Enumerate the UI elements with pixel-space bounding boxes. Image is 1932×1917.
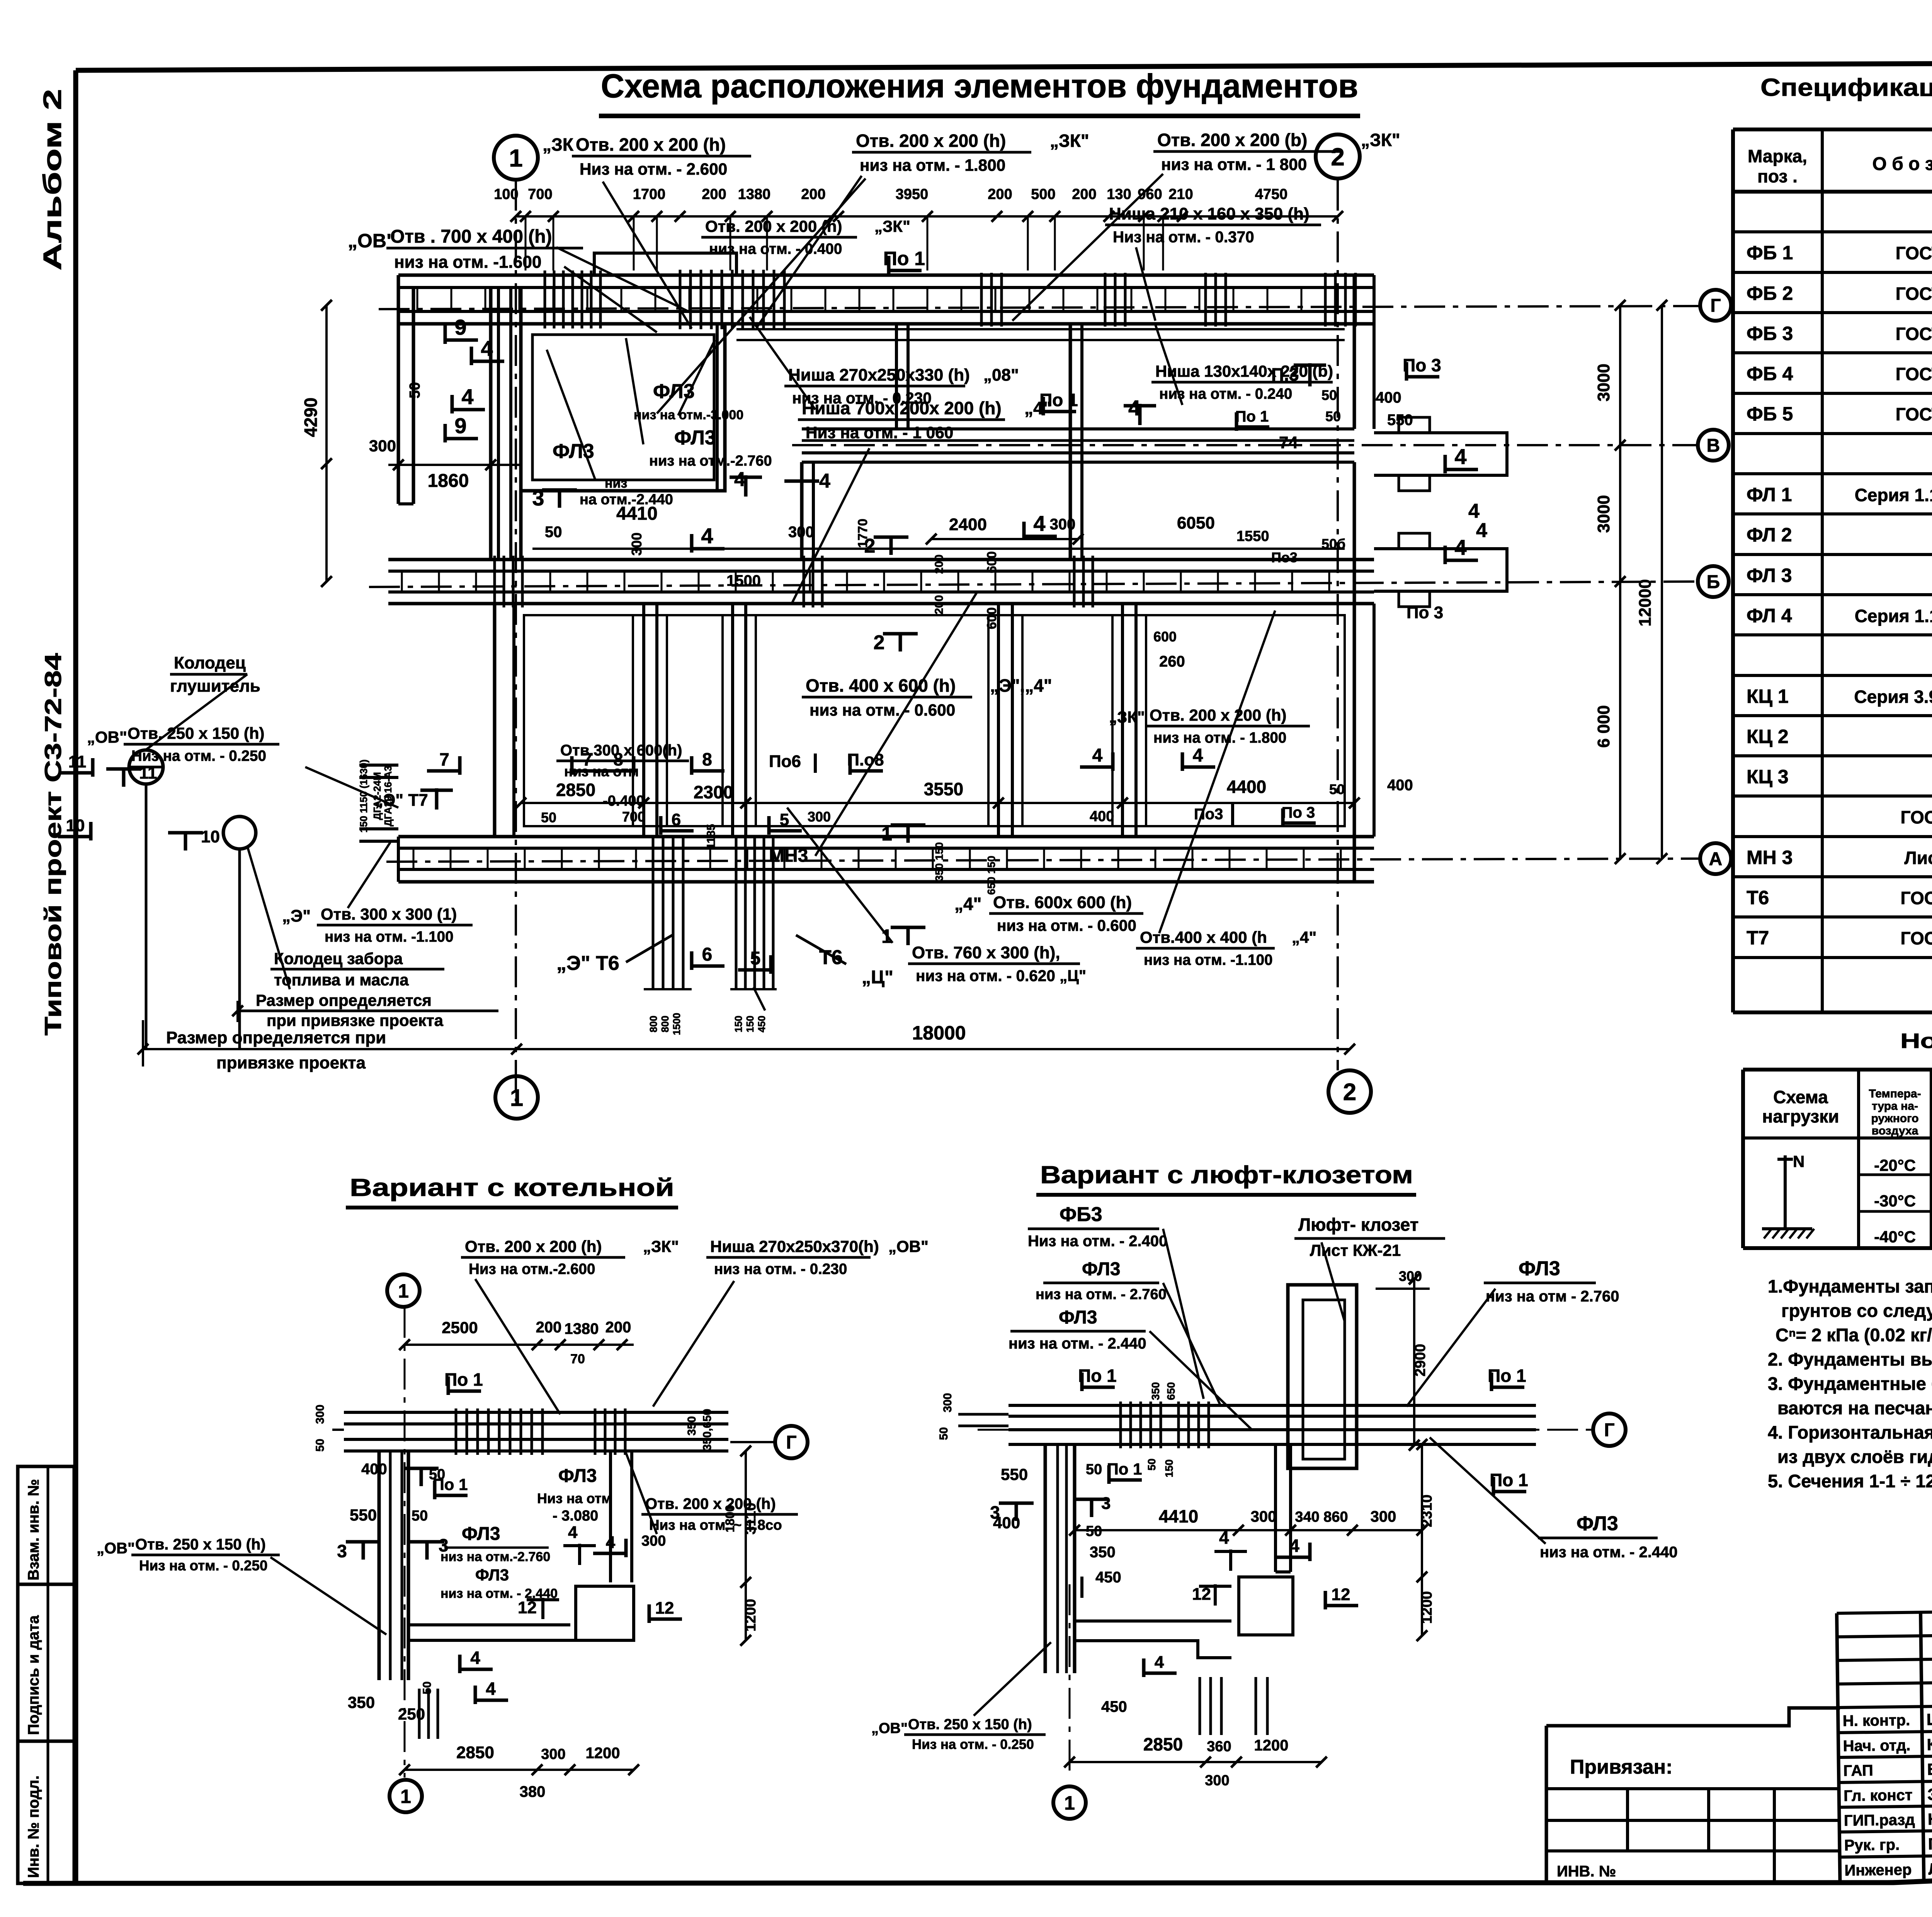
- svg-text:300: 300: [1251, 1508, 1277, 1525]
- svg-text:низ на отм. -1.600: низ на отм. -1.600: [394, 253, 541, 272]
- variant1 band left stub: [332, 1429, 344, 1431]
- svg-text:ГОСТ 13579-78: ГОСТ 13579-78: [1896, 243, 1932, 263]
- svg-text:ФЛ3: ФЛ3: [553, 440, 594, 463]
- svg-text:10: 10: [66, 816, 85, 835]
- svg-text:Отв. 400 х 600 (h): Отв. 400 х 600 (h): [806, 675, 956, 696]
- svg-text:ГОСТ 3634-79: ГОСТ 3634-79: [1900, 807, 1932, 827]
- svg-text:низ на отм. - 0.600: низ на отм. - 0.600: [997, 917, 1136, 934]
- svg-text:350: 350: [685, 1416, 698, 1436]
- svg-text:5: 5: [780, 810, 789, 829]
- svg-text:350: 350: [348, 1693, 375, 1711]
- svg-text:18000: 18000: [912, 1022, 966, 1044]
- svg-text:150: 150: [733, 1015, 744, 1032]
- svg-text:Типовой проект С3-72-84: Типовой проект С3-72-84: [40, 653, 66, 1036]
- svg-text:2: 2: [1343, 1079, 1356, 1106]
- svg-text:200: 200: [801, 186, 825, 202]
- svg-text:300: 300: [788, 524, 814, 541]
- svg-text:400: 400: [361, 1461, 387, 1478]
- svg-text:9: 9: [454, 413, 466, 438]
- svg-text:привязке проекта: привязке проекта: [216, 1053, 366, 1072]
- svg-text:150 1150 (1630): 150 1150 (1630): [358, 759, 369, 832]
- svg-text:По 1: По 1: [883, 248, 925, 269]
- axis 1 dash-dot vertical: [515, 180, 517, 1101]
- svg-text:Глебова: Глебова: [1928, 1834, 1932, 1853]
- wall band axis В partial: [802, 427, 1354, 430]
- svg-text:Низ на отм. - 0.250: Низ на отм. - 0.250: [912, 1737, 1034, 1752]
- hatch ticks on Б band: [493, 556, 496, 607]
- variant1 right dim line: [745, 1451, 747, 1640]
- svg-text:ФЛ 2: ФЛ 2: [1747, 524, 1792, 546]
- svg-text:„Цʺ: „Цʺ: [862, 967, 893, 988]
- porch left wall: [397, 275, 400, 504]
- svg-text:ФЛ3: ФЛ3: [1519, 1257, 1560, 1280]
- svg-text:Отв. 250 х 150 (h): Отв. 250 х 150 (h): [135, 1536, 266, 1553]
- svg-text:ГОСТ 13579-78: ГОСТ 13579-78: [1896, 324, 1932, 344]
- svg-text:топлива и масла: топлива и масла: [274, 971, 409, 989]
- svg-text:Колодец забора: Колодец забора: [274, 949, 403, 968]
- svg-text:ФБ 2: ФБ 2: [1747, 282, 1793, 304]
- svg-text:Кочетков: Кочетков: [1927, 1735, 1932, 1754]
- svg-text:ИНВ. №: ИНВ. №: [1557, 1863, 1616, 1880]
- svg-text:1: 1: [510, 1085, 523, 1111]
- svg-text:По 3: По 3: [1403, 355, 1441, 375]
- svg-text:6 000: 6 000: [1594, 705, 1613, 748]
- svg-text:1.Фундаменты запроектированы: 1.Фундаменты запроектированы для сухих ,…: [1768, 1276, 1932, 1296]
- svg-text:„4ʺ: „4ʺ: [1024, 398, 1051, 418]
- variant2 po1 marks: [1080, 1373, 1084, 1391]
- svg-text:Вариант с люфт-клозетом: Вариант с люфт-клозетом: [1040, 1161, 1413, 1189]
- svg-text:По 1: По 1: [1488, 1366, 1526, 1386]
- svg-text:300: 300: [369, 437, 396, 455]
- svg-text:Виноградов: Виноградов: [1927, 1759, 1932, 1778]
- svg-text:ФБ 4: ФБ 4: [1747, 363, 1793, 384]
- svg-text:КЦ 2: КЦ 2: [1747, 726, 1789, 747]
- svg-text:2850: 2850: [556, 780, 595, 800]
- svg-text:Низ на отм.-2.600: Низ на отм.-2.600: [469, 1261, 595, 1277]
- svg-text:Взам. инв. №: Взам. инв. №: [25, 1479, 42, 1580]
- axis Б dash-dot: [369, 582, 1698, 587]
- svg-text:200: 200: [536, 1319, 562, 1336]
- svg-text:По6: По6: [769, 752, 801, 771]
- pipe stub left wall y1990: [359, 764, 398, 767]
- svg-text:Г: Г: [1604, 1420, 1614, 1441]
- svg-text:350: 350: [1150, 1382, 1162, 1400]
- svg-text:ФЛ 1: ФЛ 1: [1747, 484, 1792, 505]
- svg-text:50б: 50б: [1321, 536, 1345, 552]
- svg-text:Ниша 210 х 160 х 350 (h): Ниша 210 х 160 х 350 (h): [1109, 204, 1310, 223]
- svg-text:3: 3: [1101, 1494, 1111, 1513]
- svg-text:10: 10: [201, 827, 220, 846]
- variant1 axis circle 1 bottom: [389, 1780, 422, 1812]
- load table schema sketch: [1784, 1155, 1787, 1229]
- svg-text:воздуха: воздуха: [1872, 1124, 1918, 1137]
- svg-text:300: 300: [941, 1393, 954, 1412]
- variant1 po1 mark: [447, 1376, 450, 1395]
- svg-text:150: 150: [1163, 1459, 1175, 1478]
- svg-text:Нач. отд.: Нач. отд.: [1843, 1737, 1910, 1755]
- svg-text:По3: По3: [1271, 549, 1298, 565]
- svg-text:74: 74: [1279, 433, 1298, 452]
- svg-text:1185: 1185: [705, 824, 718, 849]
- dim 2400 mid: [874, 536, 908, 539]
- svg-text:400: 400: [1376, 389, 1401, 406]
- svg-text:4: 4: [819, 470, 830, 492]
- svg-text:ружного: ружного: [1871, 1112, 1918, 1125]
- svg-text:По 1: По 1: [1107, 1460, 1142, 1478]
- svg-text:Серия 1.112-5, выпуск 4: Серия 1.112-5, выпуск 4: [1855, 606, 1932, 626]
- variant2 axis circle 1: [1069, 1584, 1071, 1778]
- svg-text:„Эʺ Т6: „Эʺ Т6: [556, 952, 619, 975]
- svg-text:450: 450: [756, 1015, 767, 1032]
- svg-text:низ на отм.-2.760: низ на отм.-2.760: [649, 453, 772, 469]
- footing inner lines above А band: [524, 825, 1345, 827]
- svg-text:низ на отм.-3.000: низ на отм.-3.000: [634, 408, 743, 422]
- svg-text:низ на отм. - 0.400: низ на отм. - 0.400: [709, 241, 842, 257]
- svg-text:2. Фундаменты выполнены из: 2. Фундаменты выполнены из сборных блоко…: [1768, 1349, 1932, 1369]
- svg-text:По 1: По 1: [1235, 408, 1269, 425]
- svg-text:3: 3: [337, 1541, 347, 1561]
- svg-text:КЦ 3: КЦ 3: [1747, 766, 1789, 788]
- svg-text:130: 130: [1107, 186, 1131, 202]
- svg-text:4400: 4400: [1227, 777, 1266, 797]
- variant1 top dim line: [405, 1344, 634, 1346]
- svg-text:Нормативные нагрузки на: Нормативные нагрузки на обрезе фундамент…: [1900, 1029, 1932, 1053]
- svg-text:400: 400: [1090, 808, 1114, 825]
- svg-text:ФЛ3: ФЛ3: [462, 1524, 500, 1544]
- svg-text:Низ на отм. - 2.600: Низ на отм. - 2.600: [580, 160, 727, 178]
- svg-text:6050: 6050: [1177, 514, 1215, 532]
- svg-text:низ на отм. - 0.620 „Цʺ: низ на отм. - 0.620 „Цʺ: [916, 967, 1086, 985]
- svg-text:Н. контр.: Н. контр.: [1843, 1712, 1910, 1730]
- section marks bottom rooms row: [458, 756, 462, 775]
- tick row on А band: [413, 848, 415, 869]
- svg-text:-30°C: -30°C: [1874, 1192, 1916, 1210]
- svg-text:По 1: По 1: [433, 1475, 468, 1493]
- svg-text:1: 1: [881, 823, 892, 845]
- hatch ticks on top band: [544, 270, 546, 328]
- svg-text:ФЛ3: ФЛ3: [558, 1466, 597, 1486]
- svg-text:4: 4: [470, 1648, 480, 1668]
- tick row on Б band: [401, 571, 403, 592]
- bottom dimension line 18000: [143, 1048, 1350, 1050]
- svg-text:ФЛ 3: ФЛ 3: [1747, 565, 1792, 586]
- svg-text:Низ на отм. - 1 060: Низ на отм. - 1 060: [806, 424, 953, 442]
- svg-text:350: 350: [1090, 1544, 1116, 1561]
- svg-text:Т7: Т7: [1747, 927, 1769, 949]
- variant2 niche wall vertical: [1274, 1444, 1277, 1572]
- svg-text:Схема расположения элементов: Схема расположения элементов фундаментов: [601, 68, 1358, 105]
- svg-text:2900: 2900: [1412, 1344, 1429, 1377]
- svg-text:1200: 1200: [1254, 1737, 1289, 1754]
- svg-text:1: 1: [509, 144, 523, 172]
- svg-text:„ЗКʺ: „ЗКʺ: [874, 217, 910, 235]
- svg-text:Низ на отм. - 0.250: Низ на отм. - 0.250: [139, 1558, 267, 1573]
- svg-text:низ на отм. -1.100: низ на отм. -1.100: [325, 929, 454, 945]
- svg-text:380: 380: [520, 1783, 546, 1800]
- svg-text:4. Горизонтальная гидроизоля: 4. Горизонтальная гидроизоляция стен вып…: [1768, 1422, 1932, 1442]
- svg-text:Г: Г: [1710, 296, 1721, 316]
- svg-text:ФЛ3: ФЛ3: [1059, 1307, 1097, 1328]
- svg-text:200: 200: [933, 595, 946, 614]
- svg-text:ГОСТ 1839-80: ГОСТ 1839-80: [1900, 888, 1932, 908]
- svg-text:300: 300: [1050, 516, 1076, 533]
- svg-text:ФЛ3: ФЛ3: [1577, 1512, 1618, 1535]
- svg-text:1550: 1550: [1236, 528, 1269, 544]
- svg-text:4: 4: [701, 524, 713, 548]
- left margin stamp boxes: [18, 1466, 74, 1584]
- svg-text:МН3: МН3: [769, 845, 808, 866]
- svg-text:150: 150: [744, 1015, 756, 1032]
- svg-text:Отв. 250 х 150 (h): Отв. 250 х 150 (h): [908, 1716, 1032, 1733]
- variant2 right dim line: [1421, 1444, 1423, 1636]
- axis 2 dash-dot vertical: [1337, 180, 1339, 1070]
- variant2 niche dims: [1376, 1288, 1430, 1290]
- svg-text:-20°C: -20°C: [1874, 1156, 1916, 1174]
- svg-text:ФБ 1: ФБ 1: [1747, 242, 1793, 264]
- variant1 marks 4 12: [578, 1544, 581, 1565]
- svg-text:N: N: [1793, 1152, 1804, 1170]
- svg-text:1: 1: [1064, 1792, 1075, 1814]
- svg-text:поз .: поз .: [1757, 166, 1798, 186]
- svg-text:350,650: 350,650: [701, 1409, 714, 1451]
- svg-text:ФЛ 4: ФЛ 4: [1747, 605, 1792, 626]
- svg-text:360: 360: [1207, 1738, 1231, 1755]
- axis circle 2 bottom: [1328, 1070, 1371, 1113]
- svg-text:50: 50: [412, 1508, 428, 1524]
- svg-text:„ОВʺ: „ОВʺ: [97, 1540, 135, 1557]
- svg-text:1380: 1380: [738, 186, 771, 202]
- svg-text:800: 800: [648, 1015, 659, 1032]
- axis circle 1 top: [494, 136, 538, 180]
- svg-text:300: 300: [541, 1746, 565, 1762]
- svg-text:„ЗК: „ЗК: [543, 134, 574, 155]
- svg-text:Инв. № подл.: Инв. № подл.: [25, 1776, 42, 1878]
- svg-text:Альбом 2: Альбом 2: [38, 89, 66, 270]
- svg-text:2850: 2850: [1143, 1734, 1183, 1754]
- svg-text:Серия 1.112-5, выпуск 2: Серия 1.112-5, выпуск 2: [1855, 485, 1932, 505]
- outer drawing frame: [76, 61, 1932, 70]
- svg-text:Цыганова: Цыганова: [1927, 1709, 1932, 1729]
- svg-text:700: 700: [622, 809, 645, 825]
- svg-text:В: В: [1707, 435, 1720, 456]
- svg-text:300: 300: [629, 532, 645, 556]
- svg-text:МН 3: МН 3: [1747, 847, 1793, 868]
- svg-text:„08ʺ: „08ʺ: [983, 366, 1019, 384]
- svg-text:Привязан:: Привязан:: [1570, 1756, 1673, 1778]
- svg-text:ФЛ3: ФЛ3: [475, 1566, 509, 1584]
- svg-text:Ниша 270х250х370(h): Ниша 270х250х370(h): [710, 1237, 879, 1255]
- svg-text:низ на отм. -1.100: низ на отм. -1.100: [1144, 952, 1273, 968]
- svg-text:7: 7: [439, 749, 449, 769]
- svg-text:низ на отм. - 0.600: низ на отм. - 0.600: [810, 701, 955, 719]
- svg-text:450: 450: [1101, 1698, 1127, 1715]
- svg-text:при привязке проекта: при привязке проекта: [267, 1011, 444, 1029]
- svg-text:Темпера-: Темпера-: [1869, 1087, 1921, 1100]
- axis circle Г: [1700, 290, 1731, 321]
- variant2 left wall: [1044, 1444, 1047, 1673]
- variant1 axis circle Г: [775, 1426, 808, 1458]
- axis1 wall lower: [493, 604, 497, 837]
- svg-text:КЦ 1: КЦ 1: [1747, 685, 1789, 707]
- svg-text:По 3: По 3: [1282, 804, 1315, 821]
- svg-text:4: 4: [1454, 535, 1466, 560]
- svg-text:3550: 3550: [924, 779, 963, 799]
- svg-text:5. Сечения 1-1 ÷ 12-12 смот: 5. Сечения 1-1 ÷ 12-12 смотреть на листе…: [1768, 1471, 1932, 1491]
- svg-text:1: 1: [400, 1786, 411, 1807]
- svg-text:О б о з н а ч е н и е: О б о з н а ч е н и е: [1872, 154, 1932, 174]
- svg-text:210: 210: [1168, 186, 1193, 202]
- svg-text:550: 550: [350, 1506, 377, 1524]
- svg-text:4: 4: [1193, 745, 1203, 766]
- svg-text:4: 4: [481, 336, 493, 361]
- svg-text:Отв. 760 х 300 (h),: Отв. 760 х 300 (h),: [912, 943, 1060, 962]
- svg-text:2850: 2850: [456, 1743, 494, 1762]
- svg-text:200: 200: [605, 1319, 631, 1336]
- svg-text:Отв. 600х 600 (h): Отв. 600х 600 (h): [993, 893, 1132, 912]
- svg-text:200: 200: [1072, 186, 1096, 202]
- T6 pipe hatch left group: [652, 837, 655, 989]
- svg-text:50: 50: [314, 1439, 327, 1451]
- svg-text:Т6: Т6: [1747, 887, 1769, 908]
- svg-text:3: 3: [532, 486, 544, 510]
- svg-text:По3: По3: [1194, 806, 1223, 823]
- variant2 axis Г: [978, 1429, 1592, 1431]
- svg-text:ФБ3: ФБ3: [1060, 1203, 1102, 1226]
- svg-text:250: 250: [398, 1705, 425, 1723]
- axis А dash-dot: [386, 859, 1699, 862]
- svg-text:1200: 1200: [743, 1599, 759, 1632]
- svg-text:низ на отм. - 2.440: низ на отм. - 2.440: [1009, 1335, 1146, 1352]
- variant1 axis circle 1 top: [387, 1274, 420, 1307]
- svg-text:4: 4: [568, 1523, 578, 1542]
- svg-text:Низ на отм: Низ на отм: [537, 1490, 612, 1506]
- svg-text:4290: 4290: [301, 398, 321, 437]
- top dimension line: [516, 215, 1338, 218]
- svg-text:2400: 2400: [949, 515, 987, 534]
- svg-text:6: 6: [702, 944, 713, 965]
- svg-text:„ЗКʺ: „ЗКʺ: [1050, 131, 1089, 151]
- svg-text:200: 200: [933, 555, 946, 574]
- svg-text:50: 50: [937, 1427, 950, 1440]
- svg-text:340 860: 340 860: [1295, 1509, 1348, 1525]
- variant2 pier: [1239, 1577, 1293, 1635]
- svg-text:11: 11: [139, 764, 157, 782]
- svg-text:4410: 4410: [1159, 1506, 1198, 1526]
- svg-text:ГОСТ 13579-78: ГОСТ 13579-78: [1896, 284, 1932, 304]
- svg-text:ГОСТ 13579-78: ГОСТ 13579-78: [1896, 404, 1932, 424]
- leader diagonals across rooms: [657, 179, 866, 413]
- svg-text:Рук. гр.: Рук. гр.: [1844, 1836, 1900, 1854]
- variant2 bottom strip: [1075, 1619, 1231, 1623]
- svg-text:низ на отм. - 0.230: низ на отм. - 0.230: [714, 1261, 847, 1277]
- variant2 hatch below: [1199, 1677, 1201, 1735]
- svg-text:Отв. 200 х 200 (h): Отв. 200 х 200 (h): [576, 134, 726, 155]
- svg-text:50: 50: [1321, 387, 1337, 403]
- svg-text:1700: 1700: [633, 186, 666, 202]
- svg-text:низ на отм - 2.760: низ на отм - 2.760: [1486, 1288, 1619, 1305]
- svg-text:„ЗКʺ: „ЗКʺ: [1361, 130, 1400, 150]
- mid vertical wall x2075: [800, 462, 804, 560]
- bottom room walls verticals: [642, 604, 645, 837]
- svg-text:100: 100: [494, 186, 518, 202]
- protrusion at axis В right: [1374, 433, 1507, 475]
- svg-text:800: 800: [659, 1015, 671, 1032]
- section marks around boiler room: [444, 325, 447, 344]
- variant1 right wall: [609, 1451, 612, 1582]
- svg-text:3. Фундаментные блоки и пли: 3. Фундаментные блоки и плиты ленточных …: [1768, 1373, 1932, 1394]
- mid vertical wall x2770: [1069, 324, 1072, 560]
- svg-text:„ЗКʺ: „ЗКʺ: [1109, 708, 1145, 726]
- svg-text:грунтов со следующими хара: грунтов со следующими характеристиками: …: [1781, 1300, 1932, 1321]
- svg-text:1500: 1500: [726, 572, 761, 589]
- wall band axis Г: [398, 274, 1374, 277]
- variant2 marks 4: [1229, 1550, 1232, 1571]
- svg-text:низ на отм. - 1 800: низ на отм. - 1 800: [1161, 155, 1307, 173]
- po1 mark top: [887, 256, 891, 274]
- svg-text:50: 50: [1146, 1458, 1158, 1470]
- svg-text:ваются на песчаную подготов: ваются на песчаную подготовку толщиной 1…: [1777, 1398, 1932, 1418]
- svg-text:Б: Б: [1707, 572, 1720, 592]
- boiler room outline: [521, 324, 725, 491]
- svg-text:Отв. 200 х 200 (h): Отв. 200 х 200 (h): [705, 217, 842, 235]
- svg-text:4: 4: [1219, 1527, 1229, 1548]
- svg-text:ФЛ3: ФЛ3: [674, 427, 716, 449]
- variant1 bottom dim line: [405, 1769, 634, 1771]
- svg-text:-40°C: -40°C: [1874, 1228, 1916, 1246]
- svg-text:из двух слоёв гидроизола н: из двух слоёв гидроизола на мастике .: [1777, 1446, 1932, 1467]
- svg-text:12: 12: [1332, 1585, 1350, 1604]
- svg-text:1500: 1500: [671, 1013, 682, 1035]
- load table grid: [1743, 1068, 1932, 1072]
- svg-text:8: 8: [702, 749, 712, 769]
- svg-text:Отв . 700 х 400 (h): Отв . 700 х 400 (h): [390, 226, 552, 247]
- svg-text:3110: 3110: [743, 1503, 759, 1534]
- axis1 wall upper: [509, 287, 512, 560]
- svg-text:600: 600: [985, 607, 999, 629]
- title block outline: [1837, 1610, 1932, 1883]
- protrusion at axis Б right: [1374, 549, 1507, 591]
- svg-text:50: 50: [1325, 408, 1341, 424]
- svg-text:1770: 1770: [855, 519, 870, 548]
- svg-text:4: 4: [1092, 745, 1103, 766]
- svg-text:6: 6: [672, 810, 681, 829]
- svg-text:Низ на отм. - 2.400: Низ на отм. - 2.400: [1028, 1233, 1167, 1250]
- svg-text:50: 50: [1086, 1461, 1102, 1478]
- svg-text:„4ʺ: „4ʺ: [954, 894, 981, 914]
- dim 1860 line: [388, 464, 521, 466]
- svg-text:Колодец: Колодец: [174, 653, 246, 672]
- svg-text:Серия 3.900-3, выпуск 7: Серия 3.900-3, выпуск 7: [1854, 687, 1932, 707]
- svg-text:Левина: Левина: [1928, 1859, 1932, 1878]
- svg-text:А: А: [1709, 849, 1723, 869]
- svg-text:300: 300: [808, 809, 831, 825]
- svg-text:Отв. 200 х 200 (h): Отв. 200 х 200 (h): [856, 131, 1006, 151]
- footing inner lines below top band: [736, 328, 1345, 330]
- svg-text:12: 12: [655, 1599, 674, 1618]
- svg-text:550: 550: [1387, 412, 1413, 429]
- svg-text:2: 2: [1331, 143, 1345, 171]
- svg-text:ГОСТ 13579-78: ГОСТ 13579-78: [1896, 364, 1932, 384]
- svg-text:4: 4: [1476, 519, 1487, 542]
- svg-text:низ на отм: низ на отм: [564, 764, 639, 779]
- svg-text:По 1: По 1: [1078, 1366, 1117, 1386]
- variant1 pier: [576, 1586, 634, 1640]
- svg-text:300: 300: [314, 1405, 327, 1424]
- svg-text:„ОВʺ: „ОВʺ: [871, 1720, 908, 1737]
- svg-text:50: 50: [1329, 781, 1345, 797]
- variant2 left tail: [958, 1413, 1009, 1416]
- kolodets glushitel circle: [129, 750, 163, 784]
